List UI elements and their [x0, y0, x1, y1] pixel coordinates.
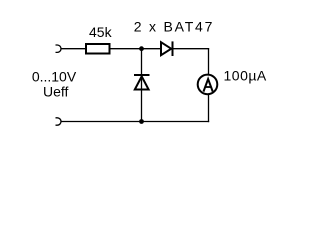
svg-text:0...10V: 0...10V — [32, 69, 77, 85]
svg-text:45k: 45k — [89, 24, 113, 40]
node B junction dot (bottom) — [139, 119, 144, 124]
svg-text:2 x BAT47: 2 x BAT47 — [134, 19, 215, 35]
svg-text:Ueff: Ueff — [43, 84, 69, 100]
input terminal J1 top — [56, 45, 62, 52]
input terminal J2 bottom — [56, 118, 62, 125]
wire top rail: diode D1 to right corner — [174, 48, 210, 50]
wire branch: top node through shunt diode to bottom node — [141, 49, 143, 122]
wire right rail: meter down to bottom corner — [208, 95, 210, 123]
ammeter M1 — [198, 75, 218, 95]
node A junction dot (top) — [139, 46, 144, 51]
wire top rail: terminal to resistor — [61, 48, 86, 50]
diode D1 series BAT47 (anode left, cathode right) — [161, 41, 173, 56]
wire top rail: resistor to diode D1 — [110, 48, 161, 50]
diode D2 shunt BAT47 (anode bottom, cathode top) — [134, 75, 150, 90]
resistor R1 45k — [86, 44, 110, 54]
svg-text:100µA: 100µA — [224, 68, 267, 84]
wire bottom rail — [61, 121, 209, 123]
wire right rail: corner down to meter — [208, 48, 210, 74]
